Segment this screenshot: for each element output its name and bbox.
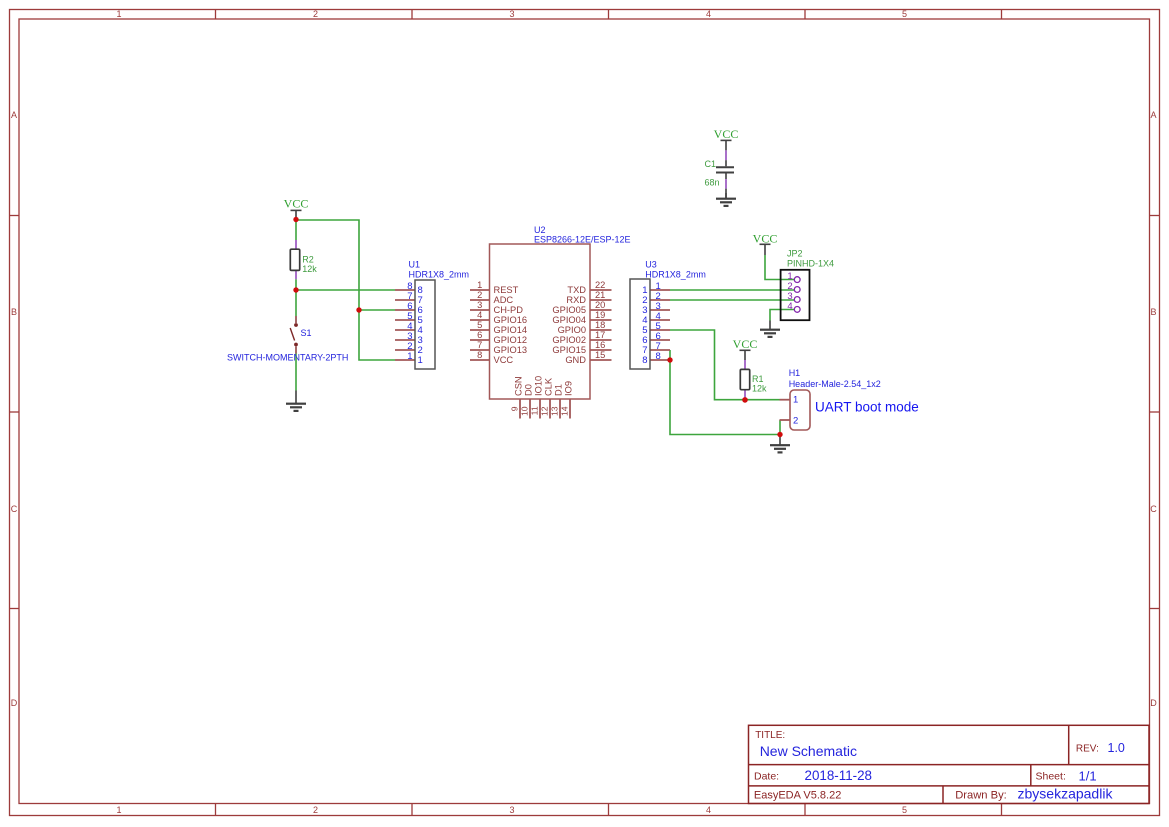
svg-text:D: D — [11, 698, 18, 708]
svg-text:Drawn By:: Drawn By: — [955, 790, 1007, 802]
svg-text:14: 14 — [560, 406, 570, 416]
svg-text:4: 4 — [706, 9, 711, 19]
svg-text:20: 20 — [595, 300, 605, 310]
svg-text:1: 1 — [793, 395, 798, 406]
svg-text:2: 2 — [793, 416, 798, 427]
svg-text:10: 10 — [520, 406, 530, 416]
svg-text:HDR1X8_2mm: HDR1X8_2mm — [645, 269, 706, 279]
svg-text:GPIO02: GPIO02 — [552, 335, 586, 345]
svg-text:4: 4 — [706, 805, 711, 815]
svg-text:C1: C1 — [705, 159, 717, 169]
svg-text:TITLE:: TITLE: — [755, 730, 785, 741]
svg-text:4: 4 — [787, 301, 792, 312]
svg-text:D0: D0 — [524, 384, 534, 396]
svg-text:17: 17 — [595, 330, 605, 340]
svg-text:U3: U3 — [645, 260, 657, 270]
svg-text:ESP8266-12E/ESP-12E: ESP8266-12E/ESP-12E — [534, 234, 631, 244]
svg-text:18: 18 — [595, 320, 605, 330]
svg-text:IO9: IO9 — [564, 381, 574, 396]
svg-text:GPIO04: GPIO04 — [552, 315, 586, 325]
svg-text:2: 2 — [477, 290, 482, 300]
svg-text:R2: R2 — [302, 254, 314, 264]
svg-text:8: 8 — [642, 355, 647, 366]
svg-text:3: 3 — [509, 805, 514, 815]
svg-text:VCC: VCC — [494, 355, 514, 365]
svg-text:1.0: 1.0 — [1108, 741, 1125, 755]
svg-text:4: 4 — [477, 310, 482, 320]
svg-text:1/1: 1/1 — [1079, 768, 1097, 783]
svg-text:Date:: Date: — [754, 771, 779, 783]
svg-text:8: 8 — [477, 350, 482, 360]
svg-text:Sheet:: Sheet: — [1036, 771, 1066, 783]
svg-text:VCC: VCC — [284, 197, 309, 211]
svg-text:zbysekzapadlik: zbysekzapadlik — [1018, 785, 1114, 801]
svg-text:PINHD-1X4: PINHD-1X4 — [787, 259, 834, 269]
svg-text:8: 8 — [656, 351, 661, 362]
svg-text:ADC: ADC — [494, 295, 514, 305]
svg-text:68n: 68n — [705, 178, 720, 188]
svg-text:GPIO05: GPIO05 — [552, 305, 586, 315]
svg-text:REV:: REV: — [1076, 744, 1099, 755]
svg-text:9: 9 — [510, 406, 520, 411]
svg-text:C: C — [1150, 504, 1157, 514]
svg-text:13: 13 — [550, 406, 560, 416]
svg-text:GND: GND — [565, 355, 586, 365]
svg-text:CSN: CSN — [514, 376, 524, 396]
svg-text:1: 1 — [116, 9, 121, 19]
svg-text:1: 1 — [477, 280, 482, 290]
svg-text:TXD: TXD — [567, 285, 586, 295]
svg-text:New Schematic: New Schematic — [760, 743, 857, 759]
svg-text:HDR1X8_2mm: HDR1X8_2mm — [409, 269, 470, 279]
svg-text:19: 19 — [595, 310, 605, 320]
svg-text:GPIO15: GPIO15 — [552, 345, 586, 355]
svg-text:16: 16 — [595, 340, 605, 350]
svg-text:R1: R1 — [752, 374, 764, 384]
svg-text:1: 1 — [418, 355, 423, 366]
svg-text:21: 21 — [595, 290, 605, 300]
svg-text:5: 5 — [902, 9, 907, 19]
svg-text:S1: S1 — [301, 328, 312, 338]
svg-text:C: C — [11, 504, 18, 514]
svg-text:VCC: VCC — [714, 127, 739, 141]
svg-text:JP2: JP2 — [787, 249, 803, 259]
svg-text:15: 15 — [595, 350, 605, 360]
svg-text:12k: 12k — [752, 383, 767, 393]
svg-text:6: 6 — [477, 330, 482, 340]
svg-text:D1: D1 — [554, 384, 564, 396]
svg-text:A: A — [1150, 110, 1156, 120]
svg-text:VCC: VCC — [753, 231, 778, 245]
svg-text:11: 11 — [530, 406, 540, 415]
svg-text:22: 22 — [595, 280, 605, 290]
svg-text:SWITCH-MOMENTARY-2PTH: SWITCH-MOMENTARY-2PTH — [227, 353, 348, 363]
svg-text:2: 2 — [313, 9, 318, 19]
svg-text:GPIO13: GPIO13 — [494, 345, 528, 355]
svg-text:A: A — [11, 110, 17, 120]
svg-text:REST: REST — [494, 285, 519, 295]
svg-text:12k: 12k — [302, 264, 317, 274]
svg-text:7: 7 — [477, 340, 482, 350]
svg-text:U1: U1 — [409, 260, 421, 270]
svg-text:B: B — [1150, 307, 1156, 317]
svg-text:GPIO0: GPIO0 — [558, 325, 586, 335]
svg-text:EasyEDA V5.8.22: EasyEDA V5.8.22 — [754, 790, 841, 802]
svg-text:GPIO12: GPIO12 — [494, 335, 528, 345]
svg-text:IO10: IO10 — [534, 376, 544, 396]
svg-text:D: D — [1150, 698, 1157, 708]
svg-text:3: 3 — [477, 300, 482, 310]
svg-text:CLK: CLK — [544, 377, 554, 396]
svg-text:Header-Male-2.54_1x2: Header-Male-2.54_1x2 — [789, 379, 881, 389]
svg-text:UART boot mode: UART boot mode — [815, 400, 919, 415]
svg-text:B: B — [11, 307, 17, 317]
svg-text:12: 12 — [540, 406, 550, 416]
svg-text:3: 3 — [509, 9, 514, 19]
svg-text:GPIO14: GPIO14 — [494, 325, 528, 335]
svg-text:H1: H1 — [789, 368, 801, 378]
svg-text:2: 2 — [313, 805, 318, 815]
svg-text:VCC: VCC — [733, 337, 758, 351]
svg-text:2018-11-28: 2018-11-28 — [805, 768, 873, 783]
svg-text:RXD: RXD — [566, 295, 586, 305]
svg-text:5: 5 — [902, 805, 907, 815]
svg-text:1: 1 — [407, 351, 412, 362]
svg-text:1: 1 — [116, 805, 121, 815]
svg-text:GPIO16: GPIO16 — [494, 315, 528, 325]
svg-text:5: 5 — [477, 320, 482, 330]
svg-text:CH-PD: CH-PD — [494, 305, 524, 315]
